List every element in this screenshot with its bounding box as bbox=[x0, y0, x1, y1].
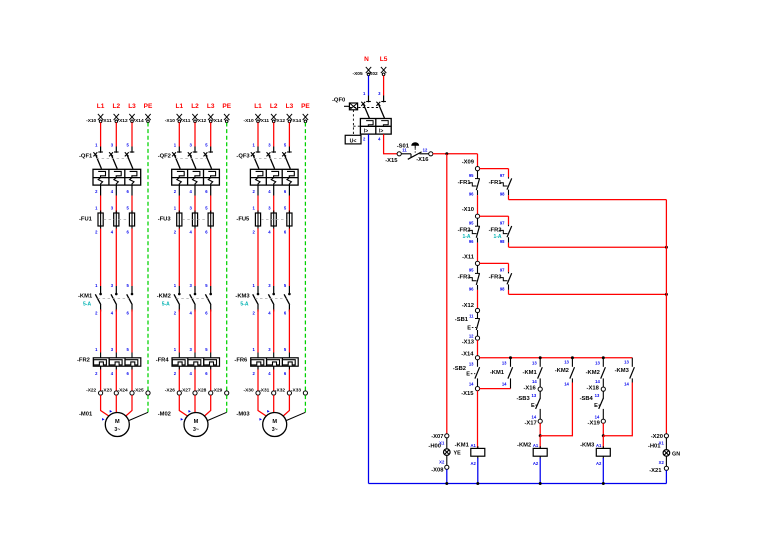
wire PE to motor frame (branch 3) bbox=[285, 395, 305, 421]
node L5 bbox=[380, 56, 388, 63]
svg-text:13: 13 bbox=[624, 360, 629, 365]
svg-text:GN: GN bbox=[672, 451, 680, 457]
wire -X28 to motor W bbox=[205, 395, 211, 416]
wire N down to bottom bus bbox=[368, 134, 370, 483]
svg-text:X2: X2 bbox=[439, 460, 445, 465]
breaker -QF2 bbox=[158, 143, 220, 196]
svg-text:3~: 3~ bbox=[272, 427, 278, 433]
terminal -X33 (branch 3) bbox=[291, 388, 308, 396]
svg-text:-X05: -X05 bbox=[353, 71, 363, 77]
pushbutton -SB3 start NO bbox=[516, 391, 540, 419]
thermal contact -FR2 NC bbox=[458, 218, 480, 244]
svg-text:-X17: -X17 bbox=[524, 421, 536, 427]
svg-text:-FU5: -FU5 bbox=[236, 217, 250, 223]
wire -FR2 NO to right rail bbox=[509, 243, 667, 248]
svg-text:-X23: -X23 bbox=[102, 388, 112, 394]
svg-text:-X33: -X33 bbox=[291, 388, 301, 394]
svg-text:A2: A2 bbox=[470, 461, 476, 466]
svg-text:-X25: -X25 bbox=[134, 388, 144, 394]
node PE (branch 2) bbox=[222, 103, 231, 110]
svg-text:-KM1: -KM1 bbox=[490, 370, 505, 376]
node L2 (branch 2) bbox=[191, 103, 199, 110]
terminal -X27 (branch 2) bbox=[181, 370, 198, 396]
motor -M02 bbox=[158, 409, 208, 437]
svg-text:14: 14 bbox=[564, 382, 569, 387]
terminal -X23 (branch 1) bbox=[102, 370, 119, 396]
svg-text:L1: L1 bbox=[254, 103, 262, 110]
contactor -KM2 main contacts bbox=[157, 229, 212, 316]
svg-text:-KM2: -KM2 bbox=[555, 368, 569, 374]
terminal -X15 (rail) bbox=[461, 387, 479, 397]
svg-text:-KM1: -KM1 bbox=[523, 370, 538, 376]
svg-text:-KM2: -KM2 bbox=[517, 443, 531, 449]
svg-text:-X11: -X11 bbox=[259, 118, 269, 124]
terminal -X09 bbox=[462, 160, 480, 171]
node L3 (branch 3) bbox=[286, 103, 294, 110]
thermal contact -FR3 NC bbox=[458, 265, 480, 291]
wire -FR1 NO to right rail bbox=[509, 195, 667, 200]
terminal -X21 bbox=[649, 466, 668, 474]
svg-text:11: 11 bbox=[402, 148, 407, 153]
svg-text:-X08: -X08 bbox=[431, 467, 444, 473]
breaker -QF1 bbox=[79, 143, 141, 196]
terminal -X15 bbox=[385, 152, 401, 164]
svg-text:-X28: -X28 bbox=[196, 388, 206, 394]
svg-text:-X19: -X19 bbox=[588, 421, 601, 427]
svg-text:5-A: 5-A bbox=[162, 302, 170, 308]
node PE (branch 3) bbox=[301, 103, 310, 110]
svg-text:X2: X2 bbox=[659, 460, 665, 465]
wire L3 terminal to QF2 bbox=[210, 123, 212, 147]
wire -X26 to motor U bbox=[179, 395, 187, 416]
svg-text:-X26: -X26 bbox=[165, 388, 175, 394]
fuse -FU5 bbox=[236, 196, 292, 235]
svg-text:I>: I> bbox=[379, 129, 383, 135]
svg-text:N: N bbox=[364, 56, 369, 63]
terminal -X12 (branch 1) bbox=[118, 114, 135, 124]
svg-text:-FR2: -FR2 bbox=[458, 228, 471, 234]
fuse -FU3 bbox=[158, 196, 214, 235]
terminal -X18 bbox=[587, 386, 606, 392]
terminal -X05 bbox=[353, 67, 372, 77]
svg-text:14: 14 bbox=[595, 379, 600, 384]
svg-text:13: 13 bbox=[595, 361, 600, 366]
thermal contact -FR3 NO bbox=[489, 268, 512, 292]
node N bbox=[364, 56, 369, 63]
svg-text:96: 96 bbox=[469, 192, 474, 197]
svg-text:12: 12 bbox=[469, 334, 474, 339]
wire rail to KM1 coil bbox=[477, 391, 479, 449]
wire -X23 to motor V bbox=[115, 395, 117, 412]
wire PE (green) branch 2 bbox=[226, 123, 228, 394]
thermal contact -FR1 NO bbox=[489, 173, 512, 197]
svg-text:-M03: -M03 bbox=[236, 412, 250, 418]
svg-text:A2: A2 bbox=[533, 461, 539, 466]
node L2 (branch 1) bbox=[113, 103, 121, 110]
svg-text:97: 97 bbox=[500, 173, 505, 178]
wire -X15 to KM1 holding bbox=[480, 388, 511, 390]
wire -X14 parallel bus bbox=[480, 356, 633, 359]
terminal -X11 (branch 1) bbox=[102, 114, 119, 124]
svg-text:A1: A1 bbox=[596, 443, 602, 448]
svg-text:A1: A1 bbox=[470, 443, 476, 448]
svg-text:-X31: -X31 bbox=[259, 388, 269, 394]
svg-text:3~: 3~ bbox=[193, 427, 199, 433]
wire -X27 to motor V bbox=[194, 395, 196, 412]
contact -KM3 holding bbox=[615, 358, 635, 387]
thermal relay -FR4 bbox=[156, 310, 220, 377]
terminal -X26 (branch 2) bbox=[165, 370, 182, 396]
switch -S01 emergency stop bbox=[397, 143, 430, 163]
terminal -X19 bbox=[588, 419, 606, 426]
wire L2 terminal to QF1 bbox=[115, 123, 117, 147]
svg-text:11: 11 bbox=[469, 314, 474, 319]
terminal -X28 (branch 2) bbox=[196, 370, 213, 396]
svg-text:-X11: -X11 bbox=[462, 254, 475, 260]
contactor coil -KM3 bbox=[580, 436, 610, 484]
pushbutton -SB4 start NO bbox=[580, 391, 604, 419]
svg-text:-X24: -X24 bbox=[118, 388, 128, 394]
svg-text:L2: L2 bbox=[270, 103, 278, 110]
svg-text:-X20: -X20 bbox=[651, 434, 663, 440]
contactor -KM1 main contacts bbox=[78, 229, 133, 316]
wire -X30 to motor U bbox=[258, 395, 266, 416]
wire -FR3 NO to right rail bbox=[509, 290, 667, 295]
terminal -X20 bbox=[651, 434, 669, 440]
svg-text:-X02: -X02 bbox=[368, 71, 378, 77]
thermal contact -FR1 NC bbox=[458, 171, 480, 197]
wire rail to -X09 bbox=[477, 154, 479, 167]
wire L5 from QF0 to -X15 bbox=[384, 134, 398, 154]
svg-text:-X14: -X14 bbox=[291, 118, 301, 124]
svg-text:-SB4: -SB4 bbox=[580, 396, 594, 402]
node L3 (branch 1) bbox=[128, 103, 136, 110]
wire L1 terminal to QF2 bbox=[178, 123, 180, 147]
svg-text:-X16: -X16 bbox=[523, 386, 536, 392]
terminal -X12 (branch 2) bbox=[196, 114, 213, 124]
svg-text:M: M bbox=[272, 419, 277, 425]
svg-text:L3: L3 bbox=[207, 103, 215, 110]
wire L5 to QF0 bbox=[383, 76, 385, 96]
svg-text:X1: X1 bbox=[439, 441, 445, 446]
svg-text:98: 98 bbox=[500, 192, 505, 197]
contactor coil -KM1 bbox=[455, 443, 485, 484]
lamp -H00 yellow bbox=[428, 438, 461, 466]
terminal -X14 (branch 2) bbox=[212, 114, 229, 124]
svg-text:13: 13 bbox=[532, 361, 537, 366]
wire PE to motor frame (branch 1) bbox=[128, 395, 148, 421]
pushbutton -SB1 stop NC bbox=[455, 313, 480, 339]
svg-text:-X14: -X14 bbox=[212, 118, 222, 124]
wire -X17 down bbox=[539, 423, 542, 437]
svg-text:-X22: -X22 bbox=[86, 388, 96, 394]
svg-text:14: 14 bbox=[502, 382, 507, 387]
wire -X31 to motor V bbox=[273, 395, 275, 412]
svg-text:12: 12 bbox=[423, 148, 428, 153]
terminal -X07 bbox=[431, 434, 449, 440]
svg-text:14: 14 bbox=[624, 382, 629, 387]
svg-text:L1: L1 bbox=[97, 103, 105, 110]
svg-text:L1: L1 bbox=[176, 103, 184, 110]
bottom neutral bus bbox=[369, 482, 667, 485]
svg-text:PE: PE bbox=[144, 103, 153, 110]
svg-text:-KM2: -KM2 bbox=[586, 370, 600, 376]
terminal -X10 (branch 2) bbox=[165, 114, 182, 124]
svg-text:-X12: -X12 bbox=[118, 118, 128, 124]
svg-text:14: 14 bbox=[532, 415, 537, 420]
svg-text:-X30: -X30 bbox=[244, 388, 254, 394]
svg-text:-X14: -X14 bbox=[134, 118, 144, 124]
wire -X22 to motor U bbox=[101, 395, 109, 416]
svg-text:-X09: -X09 bbox=[462, 160, 475, 166]
svg-text:96: 96 bbox=[469, 239, 474, 244]
svg-text:-X07: -X07 bbox=[431, 434, 443, 440]
svg-text:A2: A2 bbox=[596, 461, 602, 466]
wire N to QF0 bbox=[368, 76, 370, 96]
terminal -X14 (branch 1) bbox=[134, 114, 151, 124]
svg-text:95: 95 bbox=[469, 173, 474, 178]
terminal -X08 bbox=[431, 465, 449, 473]
svg-text:13: 13 bbox=[502, 361, 507, 366]
breaker -QF3 bbox=[236, 143, 298, 196]
svg-text:X1: X1 bbox=[659, 441, 665, 446]
terminal -X22 (branch 1) bbox=[86, 370, 103, 396]
svg-text:YE: YE bbox=[454, 451, 462, 457]
wire -X32 to motor W bbox=[283, 395, 289, 416]
contact -KM1 interlock bbox=[523, 358, 543, 387]
svg-text:A1: A1 bbox=[533, 443, 539, 448]
terminal -X24 (branch 1) bbox=[118, 370, 135, 396]
svg-text:-FR6: -FR6 bbox=[234, 358, 248, 364]
svg-text:PE: PE bbox=[222, 103, 231, 110]
svg-text:98: 98 bbox=[500, 286, 505, 291]
svg-text:-X10: -X10 bbox=[86, 118, 96, 124]
svg-text:-FR2: -FR2 bbox=[489, 228, 502, 234]
wire left lamp rail bbox=[446, 154, 448, 434]
svg-text:-SB1: -SB1 bbox=[455, 317, 469, 323]
thermal relay -FR2 bbox=[77, 310, 141, 377]
svg-text:L3: L3 bbox=[286, 103, 294, 110]
wire -X11 to NO branch bbox=[480, 263, 509, 272]
svg-text:13: 13 bbox=[469, 362, 474, 367]
svg-text:-KM1: -KM1 bbox=[78, 294, 93, 300]
thermal relay -FR6 bbox=[234, 310, 298, 377]
svg-text:13: 13 bbox=[532, 393, 537, 398]
svg-text:-KM3: -KM3 bbox=[235, 294, 250, 300]
junction right rail row3 bbox=[665, 293, 668, 296]
svg-text:97: 97 bbox=[500, 221, 505, 226]
svg-text:-X21: -X21 bbox=[649, 468, 662, 474]
contact -KM2 interlock bbox=[586, 358, 606, 387]
fuse -FU1 bbox=[79, 196, 135, 235]
wire -KM2 holding to node bbox=[540, 383, 572, 436]
svg-text:E: E bbox=[531, 403, 535, 409]
svg-text:-X12: -X12 bbox=[196, 118, 206, 124]
terminal -X10 bbox=[462, 207, 480, 218]
svg-text:-X10: -X10 bbox=[244, 118, 254, 124]
svg-text:-X12: -X12 bbox=[462, 303, 474, 309]
svg-text:-KM1: -KM1 bbox=[455, 443, 470, 449]
node L2 (branch 3) bbox=[270, 103, 278, 110]
svg-text:13: 13 bbox=[595, 393, 600, 398]
terminal -X11 (branch 3) bbox=[259, 114, 276, 124]
wire -KM3 holding to node bbox=[603, 383, 632, 436]
svg-text:L2: L2 bbox=[191, 103, 199, 110]
lamp -H01 green bbox=[648, 438, 680, 467]
svg-text:-M02: -M02 bbox=[158, 412, 171, 418]
svg-text:13: 13 bbox=[564, 360, 569, 365]
wire -X10 to NO branch bbox=[480, 216, 509, 225]
terminal -X17 bbox=[524, 419, 542, 426]
svg-text:-X10: -X10 bbox=[462, 207, 474, 213]
svg-text:U<: U< bbox=[350, 138, 357, 144]
svg-text:14: 14 bbox=[595, 415, 600, 420]
pushbutton -SB2 start NO bbox=[453, 360, 480, 387]
wire -X09 to NO branch bbox=[480, 169, 509, 178]
wire L1 terminal to QF3 bbox=[257, 123, 259, 147]
terminal -X31 (branch 3) bbox=[259, 370, 276, 396]
terminal -X32 (branch 3) bbox=[275, 370, 292, 396]
svg-text:95: 95 bbox=[469, 221, 474, 226]
wire -X13 to -X14 bbox=[477, 340, 479, 356]
wire far right rail bbox=[665, 200, 667, 434]
wire L3 terminal to QF1 bbox=[131, 123, 133, 147]
svg-text:-KM2: -KM2 bbox=[157, 294, 171, 300]
wire PE (green) branch 1 bbox=[147, 123, 149, 394]
svg-text:-FU3: -FU3 bbox=[158, 217, 172, 223]
svg-text:5-A: 5-A bbox=[240, 302, 248, 308]
node L3 (branch 2) bbox=[207, 103, 215, 110]
wire -X08 to bus bbox=[446, 469, 448, 483]
svg-text:14: 14 bbox=[469, 382, 474, 387]
wire -X21 to bus bbox=[665, 470, 667, 483]
svg-text:-X18: -X18 bbox=[587, 386, 600, 392]
svg-text:L2: L2 bbox=[113, 103, 121, 110]
terminal -X11 bbox=[462, 254, 480, 265]
svg-text:-SB2: -SB2 bbox=[453, 366, 466, 372]
svg-text:97: 97 bbox=[500, 268, 505, 273]
wire L1 terminal to QF1 bbox=[100, 123, 102, 147]
wire rail to -X11 bbox=[477, 243, 479, 262]
thermal contact -FR2 NO bbox=[489, 221, 512, 245]
node PE (branch 1) bbox=[144, 103, 153, 110]
terminal -X11 (branch 2) bbox=[181, 114, 198, 124]
wire -X19 down bbox=[602, 423, 605, 437]
svg-text:-SB3: -SB3 bbox=[516, 396, 530, 402]
svg-text:-FU1: -FU1 bbox=[79, 217, 93, 223]
svg-text:-X15: -X15 bbox=[461, 391, 474, 397]
wire -X16 to ladder bbox=[433, 152, 478, 155]
svg-text:-QF1: -QF1 bbox=[79, 154, 93, 160]
terminal -X29 (branch 2) bbox=[212, 388, 229, 396]
svg-text:-FR4: -FR4 bbox=[156, 358, 170, 364]
wire rail to -X12 bbox=[477, 290, 479, 309]
svg-text:M: M bbox=[194, 419, 199, 425]
svg-text:-X13: -X13 bbox=[462, 340, 475, 346]
terminal -X10 (branch 1) bbox=[86, 114, 103, 124]
svg-text:-X11: -X11 bbox=[102, 118, 112, 124]
wire L2 terminal to QF2 bbox=[194, 123, 196, 147]
svg-text:3~: 3~ bbox=[114, 427, 120, 433]
svg-text:-KM3: -KM3 bbox=[615, 368, 630, 374]
terminal -X12 bbox=[462, 303, 480, 313]
svg-text:-X12: -X12 bbox=[275, 118, 285, 124]
svg-text:-M01: -M01 bbox=[79, 412, 93, 418]
terminal -X02 bbox=[368, 67, 387, 77]
contact -KM1 holding bbox=[490, 358, 513, 389]
svg-text:-QF2: -QF2 bbox=[158, 154, 171, 160]
svg-text:96: 96 bbox=[469, 286, 474, 291]
node L1 (branch 3) bbox=[254, 103, 262, 110]
svg-text:E: E bbox=[594, 403, 598, 409]
contact -KM2 holding bbox=[555, 358, 575, 387]
terminal -X12 (branch 3) bbox=[275, 114, 292, 124]
svg-text:E: E bbox=[467, 326, 471, 332]
svg-text:14: 14 bbox=[532, 379, 537, 384]
breaker -QF0 bbox=[332, 91, 391, 144]
svg-text:5-A: 5-A bbox=[83, 302, 91, 308]
svg-text:-KM3: -KM3 bbox=[580, 443, 595, 449]
svg-text:-X14: -X14 bbox=[461, 351, 474, 357]
terminal -X14 (branch 3) bbox=[291, 114, 308, 124]
svg-text:-X15: -X15 bbox=[385, 158, 398, 164]
node L1 (branch 1) bbox=[97, 103, 105, 110]
terminal -X25 (branch 1) bbox=[134, 388, 151, 396]
wire PE to motor frame (branch 2) bbox=[207, 395, 227, 421]
svg-text:95: 95 bbox=[469, 268, 474, 273]
wire rail to -X10 bbox=[477, 195, 479, 214]
terminal -X16 bbox=[429, 152, 433, 156]
svg-text:-X10: -X10 bbox=[165, 118, 175, 124]
svg-text:-X27: -X27 bbox=[181, 388, 191, 394]
contactor -KM3 main contacts bbox=[235, 229, 290, 316]
svg-text:98: 98 bbox=[500, 239, 505, 244]
wire L3 terminal to QF3 bbox=[288, 123, 290, 147]
contactor coil -KM2 bbox=[517, 436, 547, 484]
terminal -X16 bbox=[523, 386, 542, 392]
node L1 (branch 2) bbox=[176, 103, 184, 110]
svg-text:-X29: -X29 bbox=[212, 388, 222, 394]
wire PE (green) branch 3 bbox=[304, 123, 306, 394]
svg-text:E: E bbox=[466, 372, 470, 378]
svg-text:-X16: -X16 bbox=[416, 157, 429, 163]
svg-text:-QF3: -QF3 bbox=[236, 154, 250, 160]
wire L2 terminal to QF3 bbox=[273, 123, 275, 147]
motor -M01 bbox=[79, 409, 129, 437]
motor -M03 bbox=[236, 409, 286, 437]
svg-text:L3: L3 bbox=[128, 103, 136, 110]
svg-text:M: M bbox=[115, 419, 120, 425]
svg-text:-X32: -X32 bbox=[275, 388, 285, 394]
svg-text:L5: L5 bbox=[380, 56, 388, 63]
terminal -X10 (branch 3) bbox=[244, 114, 261, 124]
terminal -X14 bbox=[461, 351, 479, 360]
svg-text:-X11: -X11 bbox=[181, 118, 191, 124]
svg-text:PE: PE bbox=[301, 103, 310, 110]
svg-text:-QF0: -QF0 bbox=[332, 98, 345, 104]
svg-text:-FR2: -FR2 bbox=[77, 358, 90, 364]
wire -X24 to motor W bbox=[126, 395, 132, 416]
terminal -X30 (branch 3) bbox=[244, 370, 261, 396]
terminal -X13 bbox=[462, 336, 480, 346]
svg-text:I>: I> bbox=[364, 129, 368, 135]
junction right rail row2 bbox=[665, 246, 668, 249]
